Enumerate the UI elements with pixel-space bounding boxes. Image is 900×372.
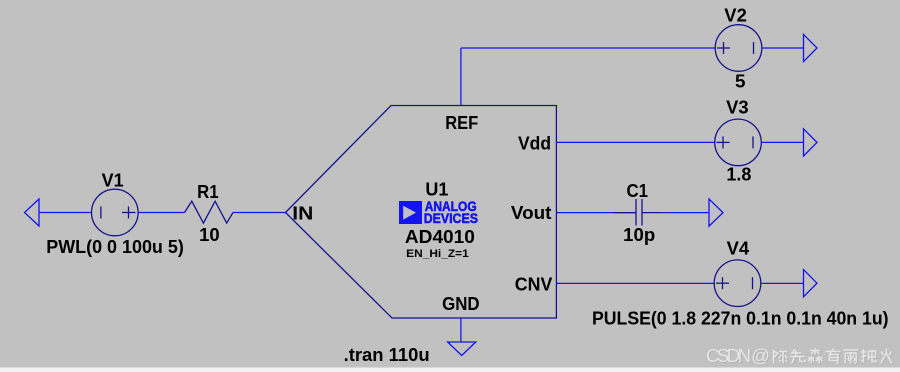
wire REF vertical <box>460 48 462 106</box>
svg-text:V4: V4 <box>727 238 750 259</box>
svg-text:DEVICES: DEVICES <box>424 210 478 226</box>
bottom watermark strip <box>0 368 900 372</box>
svg-text:CSDN @: CSDN @ <box>706 345 770 366</box>
wire V2 to port <box>762 47 804 49</box>
svg-text:Vdd: Vdd <box>518 133 551 154</box>
svg-text:EN_Hi_Z=1: EN_Hi_Z=1 <box>406 248 469 260</box>
svg-text:10p: 10p <box>623 224 655 245</box>
voltage source V1 <box>92 189 139 236</box>
svg-text:GND: GND <box>442 293 480 314</box>
wire R1 to IN pin <box>233 212 286 214</box>
svg-text:U1: U1 <box>425 179 448 200</box>
svg-text:10: 10 <box>199 224 220 245</box>
IC U1 AD4010 body <box>286 106 557 319</box>
wire Vout to C1 <box>556 212 636 214</box>
watermark CSDN <box>706 345 893 367</box>
Analog Devices logo <box>399 198 478 226</box>
svg-text:1.8: 1.8 <box>726 163 751 184</box>
voltage source V4 <box>714 260 761 307</box>
wire V3 to port <box>761 141 803 143</box>
svg-text:AD4010: AD4010 <box>405 226 475 247</box>
capacitor C1 <box>614 199 663 226</box>
svg-text:R1: R1 <box>197 181 219 202</box>
svg-text:REF: REF <box>445 112 478 133</box>
svg-text:PULSE(0 1.8 227n 0.1n 0.1n 40n: PULSE(0 1.8 227n 0.1n 0.1n 40n 1u) <box>592 307 889 328</box>
svg-text:.tran 110u: .tran 110u <box>344 344 430 365</box>
wire V4 to port <box>761 282 804 284</box>
resistor R1 <box>185 201 234 223</box>
port flag V3 <box>804 129 818 156</box>
svg-text:PWL(0 0 100u 5): PWL(0 0 100u 5) <box>46 236 184 257</box>
wire V1 to R1 <box>138 212 184 214</box>
port flag V2 <box>804 34 818 61</box>
svg-text:V1: V1 <box>102 170 124 191</box>
wire GND vertical <box>460 318 462 342</box>
wire CNV to V4 <box>556 282 714 284</box>
svg-text:V2: V2 <box>724 5 747 26</box>
wire REF horizontal to V2 <box>461 47 715 49</box>
svg-text:IN: IN <box>292 202 313 223</box>
svg-text:CNV: CNV <box>515 274 553 295</box>
wire port to V1 <box>39 212 92 214</box>
svg-text:5: 5 <box>735 71 746 92</box>
voltage source V3 <box>715 119 762 166</box>
wire Vdd to V3 <box>556 141 715 143</box>
ground <box>448 342 476 356</box>
svg-text:C1: C1 <box>627 180 649 201</box>
svg-text:V3: V3 <box>726 97 749 118</box>
port flag Vout <box>709 199 723 226</box>
port flag left (IN net) <box>25 199 40 226</box>
voltage source V2 <box>715 25 762 72</box>
wire C1 to port <box>663 212 709 214</box>
svg-text:Vout: Vout <box>511 202 552 223</box>
port flag V4 <box>804 270 818 297</box>
